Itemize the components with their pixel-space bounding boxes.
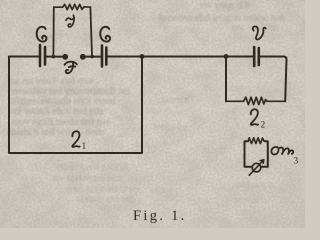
riser wire left of bypass loop: [52, 7, 54, 56]
condenser-coil loop L2 rectangle left and right sides: [225, 57, 227, 102]
subscript digits: [82, 120, 299, 166]
resistor zigzag in M3 loop: [248, 138, 264, 144]
svg-text:netmin eid neb: netmin eid neb: [76, 194, 135, 205]
coil L1 loop rectangle: [9, 57, 142, 154]
label L1 (script): [72, 131, 79, 147]
svg-text:obO ooc n: obO ooc n: [232, 180, 274, 191]
svg-text:ebiehcS sed setluG nedo: ebiehcS sed setluG nedo: [7, 127, 105, 138]
capacitor C (left): [40, 45, 45, 66]
svg-text:oosbn ty: oosbn ty: [234, 195, 268, 206]
label V (script, condenser): [253, 26, 266, 39]
riser wire right of bypass loop: [90, 7, 92, 56]
svg-text:nehcs ba: nehcs ba: [152, 122, 187, 133]
label C right (script): [100, 27, 110, 42]
label M3 (script): [271, 147, 293, 155]
bleed-through text (show-through from reverse page): [2, 0, 285, 206]
label L2 (script): [251, 109, 258, 125]
wire between spark gap and right capacitor: [85, 56, 101, 58]
svg-text:tztesre: tztesre: [162, 95, 189, 106]
wire top-left segment: [9, 56, 39, 58]
svg-text:nm: nm: [2, 18, 15, 29]
label r (script, bypass resistor): [66, 15, 74, 27]
svg-text:nre ietsb nn: nre ietsb nn: [232, 22, 279, 33]
spark gap F electrode right: [80, 54, 86, 60]
svg-text:eiv nnigod b: eiv nnigod b: [200, 0, 250, 11]
label C left (script): [37, 27, 47, 42]
wire main run to the right: [108, 56, 253, 58]
svg-text:ruF rednA ehcs ned eda: ruF rednA ehcs ned eda: [9, 106, 104, 117]
capacitor C (right): [102, 46, 106, 67]
svg-text:etlahcs red nehcilt: etlahcs red nehcilt: [56, 162, 129, 173]
svg-text:3: 3: [294, 156, 299, 166]
node junction at V branch: [224, 54, 229, 59]
coil L2 zigzag bottom: [226, 97, 285, 104]
meter circuit M3 loop rectangle: [245, 141, 268, 167]
wire V capacitor to right corner: [260, 57, 287, 60]
svg-text:Fig. 1.: Fig. 1.: [133, 208, 187, 224]
node riser junction right: [90, 55, 94, 59]
svg-text:nie nednetsre bnn: nie nednetsre bnn: [52, 173, 123, 184]
spark gap F electrode left: [62, 54, 68, 60]
label F (script, spark gap): [65, 62, 77, 74]
resistor r zigzag in bypass loop: [54, 4, 91, 9]
node riser junction left: [52, 55, 56, 59]
capacitor V plates: [254, 47, 259, 66]
hot-wire instrument circle with arrow: [252, 163, 261, 172]
svg-text:1: 1: [82, 141, 87, 151]
circuit ink: [9, 4, 299, 175]
node junction at L1 top right: [140, 54, 145, 59]
wire between left capacitor and spark gap: [47, 56, 63, 58]
svg-text:2: 2: [261, 120, 266, 130]
